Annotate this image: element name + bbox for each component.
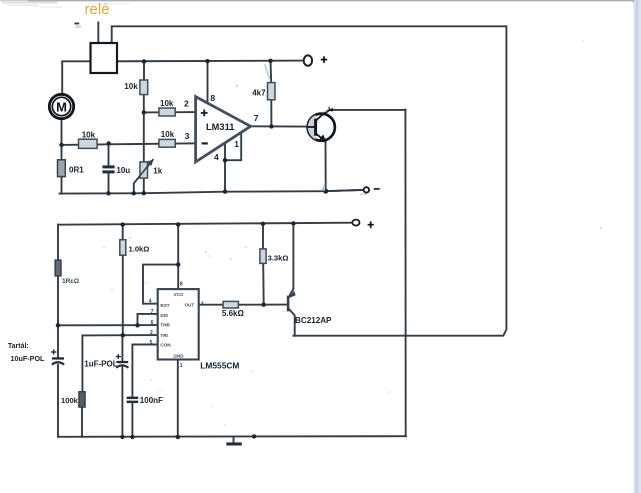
svg-text:M: M [56, 100, 67, 115]
svg-text:Tartál:: Tartál: [8, 343, 29, 350]
svg-text:1: 1 [234, 139, 239, 149]
svg-text:7: 7 [151, 309, 154, 315]
svg-text:10k: 10k [160, 99, 174, 108]
svg-text:CON: CON [160, 343, 171, 348]
svg-text:10k: 10k [124, 82, 138, 91]
svg-text:100nF: 100nF [140, 396, 163, 405]
svg-text:VCC: VCC [174, 292, 184, 297]
svg-text:10k: 10k [82, 131, 96, 140]
svg-text:GND: GND [173, 353, 184, 358]
svg-text:10uF-POL: 10uF-POL [11, 354, 46, 363]
svg-text:1RɛΩ: 1RɛΩ [62, 278, 80, 285]
svg-text:7: 7 [254, 113, 259, 123]
svg-text:6: 6 [151, 320, 154, 326]
svg-text:3: 3 [185, 131, 190, 141]
svg-text:100k: 100k [61, 396, 79, 405]
svg-text:5: 5 [150, 340, 153, 346]
svg-text:2: 2 [150, 330, 153, 336]
svg-text:10u: 10u [116, 166, 130, 175]
svg-text:8: 8 [210, 93, 215, 103]
svg-text:8: 8 [180, 282, 183, 288]
svg-text:5.6kΩ: 5.6kΩ [222, 309, 245, 318]
svg-text:2: 2 [184, 98, 189, 108]
svg-text:OUT: OUT [184, 303, 194, 308]
svg-text:LM311: LM311 [206, 122, 234, 132]
svg-text:THR: THR [160, 323, 170, 328]
svg-text:3: 3 [201, 301, 204, 307]
svg-text:LM555CM: LM555CM [200, 361, 239, 371]
svg-text:4: 4 [149, 299, 152, 305]
svg-text:BC212AP: BC212AP [295, 316, 332, 325]
svg-text:4: 4 [214, 152, 219, 162]
svg-text:DIS: DIS [160, 313, 168, 318]
svg-text:RST: RST [160, 303, 169, 308]
svg-text:0R1: 0R1 [69, 165, 84, 174]
svg-text:4k7: 4k7 [252, 88, 266, 97]
svg-text:1.0kΩ: 1.0kΩ [129, 244, 150, 253]
svg-text:1k: 1k [153, 167, 162, 176]
svg-text:10k: 10k [161, 130, 175, 139]
svg-text:3.3kΩ: 3.3kΩ [268, 254, 289, 263]
svg-text:TRI: TRI [160, 333, 167, 338]
svg-text:1uF-POL: 1uF-POL [84, 359, 117, 368]
svg-text:1: 1 [180, 363, 183, 369]
